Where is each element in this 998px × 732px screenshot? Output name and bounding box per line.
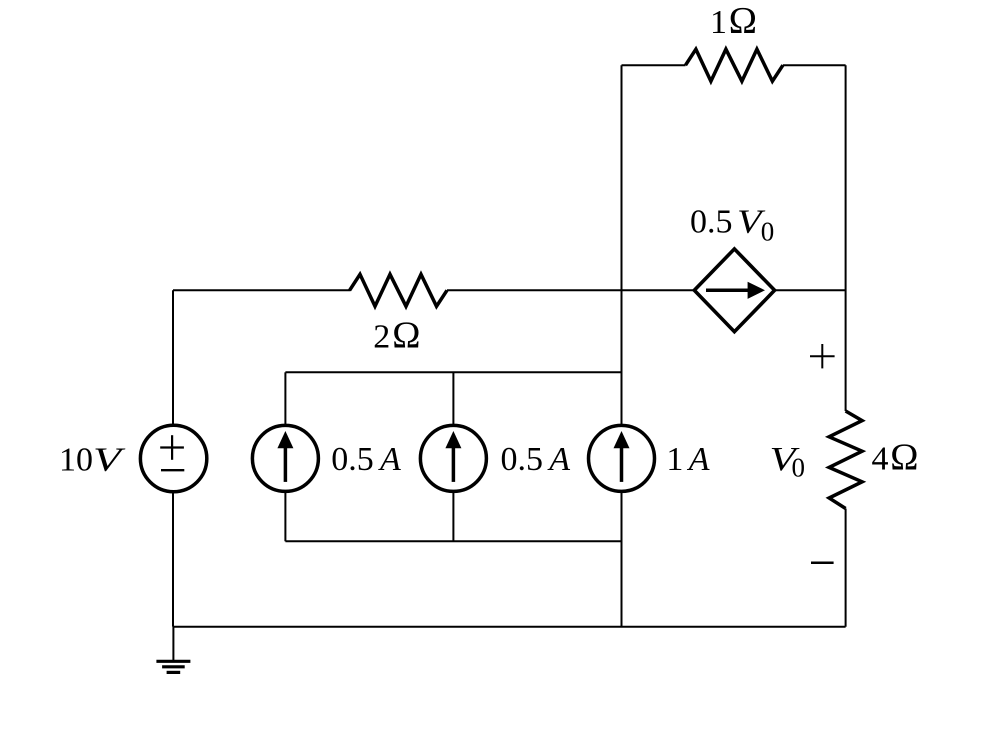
label 2ohm value	[373, 315, 421, 357]
wire: inner box top wire	[285, 371, 621, 373]
wire: middle rail x=622 from top wire to inner box top	[621, 65, 623, 425]
svg-text:0: 0	[761, 217, 775, 247]
label 1A (I3)	[666, 441, 709, 478]
label 10V	[59, 442, 127, 479]
wire: middle rail below I3 to bottom wire	[621, 491, 623, 626]
label 0.5A (I2)	[501, 441, 571, 478]
wire: inner box left drop to I1	[284, 372, 286, 425]
wire: left rail lower (V1 to bottom wire)	[172, 492, 174, 627]
wire: middle wire between 2ohm and dependent source	[447, 289, 695, 291]
polarity plus sign	[810, 355, 835, 357]
label V0 (output voltage)	[770, 441, 806, 483]
svg-text:0: 0	[792, 453, 806, 483]
svg-text:A: A	[378, 441, 401, 478]
dependent source arrow	[706, 289, 749, 293]
wire: right rail from top wire down to 4ohm resistor	[845, 65, 847, 411]
svg-text:Ω: Ω	[392, 315, 421, 357]
label 4ohm value	[872, 437, 919, 479]
current source I2 0.5A	[420, 425, 486, 491]
svg-text:Ω: Ω	[728, 0, 757, 42]
svg-text:0.5: 0.5	[690, 204, 733, 241]
svg-text:10: 10	[59, 442, 93, 479]
wire: inner box bottom wire	[285, 540, 621, 542]
wire: below I1 to inner box bottom	[284, 491, 286, 541]
current source I3 1A	[589, 425, 655, 491]
wire: inner box middle drop to I2	[452, 372, 454, 425]
svg-text:1: 1	[666, 441, 683, 478]
polarity minus sign	[811, 562, 834, 565]
resistor R 1ohm	[686, 49, 783, 81]
svg-text:A: A	[547, 441, 570, 478]
svg-text:Ω: Ω	[890, 437, 919, 479]
V1 plus sign	[160, 446, 184, 448]
voltage source V1 10V circle	[140, 425, 206, 491]
label 0.5A (I1)	[331, 441, 401, 478]
wire: middle horizontal wire, left segment from left rail to 2ohm	[173, 289, 351, 291]
wire: top wire left segment (node top loop)	[622, 64, 686, 66]
svg-text:A: A	[687, 441, 710, 478]
wire: below I2 to inner box bottom	[452, 491, 454, 541]
current source I1 0.5A	[252, 425, 318, 491]
resistor R 2ohm	[350, 274, 447, 306]
V1 minus sign	[161, 469, 184, 471]
svg-text:0.5: 0.5	[331, 441, 374, 478]
dependent current source 0.5V0 (diamond)	[694, 249, 774, 332]
ground	[172, 627, 174, 660]
svg-text:4: 4	[872, 441, 889, 478]
resistor R 4ohm (vertical)	[829, 411, 862, 509]
svg-text:1: 1	[710, 4, 727, 41]
svg-text:2: 2	[373, 319, 390, 356]
wire: top wire right segment	[783, 64, 846, 66]
wire: left rail upper (node from 2ohm down to V1)	[172, 290, 174, 425]
wire: middle wire from dependent source to right rail	[775, 289, 846, 291]
label 0.5V0	[690, 204, 774, 247]
wire: bottom wire	[173, 626, 846, 628]
label 1ohm value	[710, 0, 757, 42]
wire: right rail below 4ohm to bottom wire	[845, 509, 847, 627]
svg-text:0.5: 0.5	[501, 441, 544, 478]
